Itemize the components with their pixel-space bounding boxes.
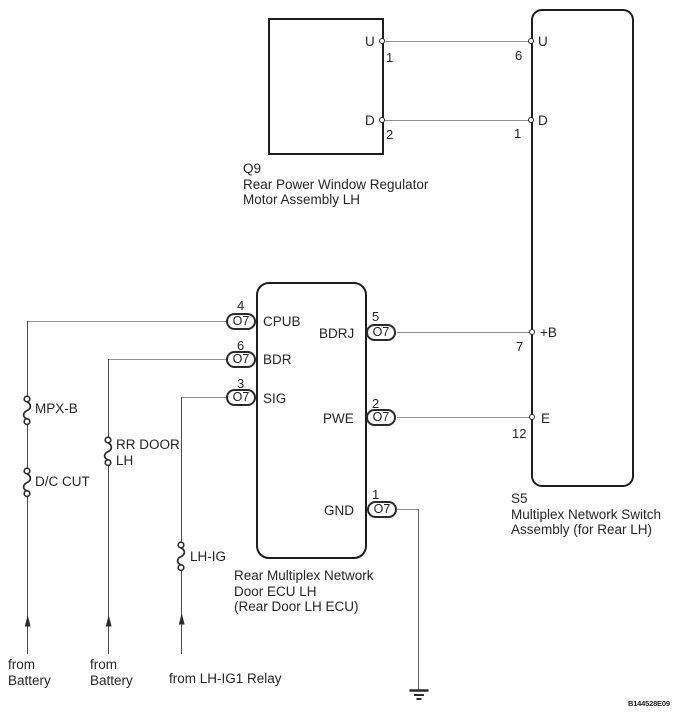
connector O7 pin 4 <box>226 313 256 330</box>
pin number 5 <box>372 309 379 324</box>
connector O7 pin 6 <box>226 351 256 368</box>
wire BDR pin6 horizontal <box>108 359 226 360</box>
pin number 12 (S5) <box>512 426 526 441</box>
label D/C CUT <box>35 474 90 490</box>
label from Battery 1 <box>8 657 51 688</box>
pin number 1 (Q9) <box>386 50 393 65</box>
pin number 3 <box>237 376 244 391</box>
label from LH-IG1 Relay <box>169 671 282 687</box>
label GND <box>324 503 354 519</box>
label S5 pin E <box>541 411 550 427</box>
label CPUB <box>263 314 301 330</box>
pin Q9-1 circle <box>379 38 385 44</box>
label BDRJ <box>319 326 354 342</box>
pin number 6 (S5) <box>515 48 522 63</box>
box S5 (Multiplex Network Switch Assembly) <box>531 9 634 487</box>
connector O7 pin 1 (GND) <box>367 501 397 518</box>
pin S5-1 circle <box>528 117 534 123</box>
label figure number B144528E09 <box>628 699 670 708</box>
label SIG <box>263 391 286 407</box>
label ECU title <box>234 568 374 615</box>
fusible link MPX-B <box>17 390 39 430</box>
pin number 4 <box>237 298 244 313</box>
wire PWE to E <box>397 417 531 418</box>
arrow from LH-IG1 Relay <box>176 613 188 626</box>
connector O7 pin 5 <box>366 324 396 341</box>
label MPX-B <box>35 401 78 417</box>
wire BDRJ to +B <box>397 332 531 333</box>
pin Q9-2 circle <box>379 117 385 123</box>
wire GND to ground <box>396 509 419 510</box>
label Q9 pin D <box>365 113 375 129</box>
pin number 2 (Q9) <box>386 127 393 142</box>
connector O7 pin 2 <box>366 409 396 426</box>
pin number 6 <box>237 338 244 353</box>
box U1 (Rear Multiplex Network Door ECU LH) <box>256 282 367 559</box>
label S5 pin U <box>538 34 548 50</box>
wire MPX-B branch vertical <box>27 321 28 396</box>
wire U (Q9 pin1 to S5 pin6) <box>385 41 530 42</box>
pin S5-6 circle <box>528 38 534 44</box>
label from Battery 2 <box>90 657 133 688</box>
label Q9 pin U <box>365 34 375 50</box>
label S5 pin D <box>538 113 548 129</box>
arrow from Battery 1 <box>22 615 34 628</box>
label PWE <box>323 411 354 427</box>
pin S5-12 circle <box>529 414 535 420</box>
wire RR DOOR branch vertical <box>108 359 109 437</box>
wire CPUB pin4 horizontal <box>27 321 226 322</box>
label RR DOOR LH <box>116 437 180 468</box>
label BDR <box>263 352 292 368</box>
wire D (Q9 pin2 to S5 pin1) <box>385 120 530 121</box>
pin S5-7 circle <box>529 329 535 335</box>
label Q9 title <box>243 161 428 208</box>
fusible link RR DOOR LH <box>98 431 120 471</box>
connector O7 pin 3 <box>226 389 256 406</box>
label LH-IG <box>190 549 226 565</box>
wire LH-IG branch vertical <box>181 397 182 542</box>
label S5 title <box>511 491 661 538</box>
arrow from Battery 2 <box>103 615 115 628</box>
pin number 7 (S5) <box>516 339 523 354</box>
wire SIG pin3 horizontal <box>181 397 226 398</box>
box Q9 (Rear Power Window Regulator Motor Assembly LH) <box>268 18 384 155</box>
pin number 1 (S5) <box>514 126 521 141</box>
fusible link LH-IG <box>171 536 193 576</box>
fusible link D/C CUT <box>17 462 39 502</box>
ground <box>405 688 433 702</box>
pin number 2 <box>372 396 379 411</box>
label S5 pin +B <box>540 325 557 341</box>
pin number 1 (GND) <box>372 487 379 502</box>
